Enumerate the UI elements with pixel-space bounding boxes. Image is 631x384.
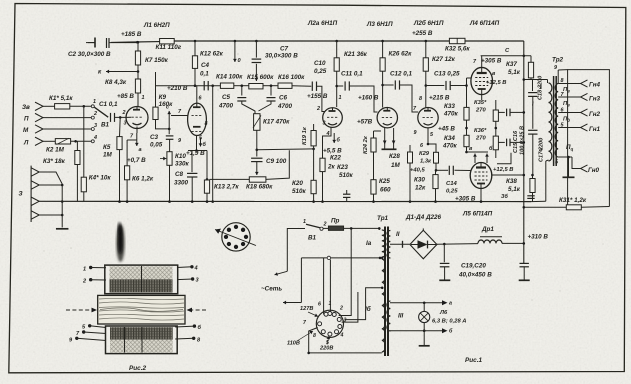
capacitor C18 (532, 80, 534, 92)
svg-text:Л6: Л6 (439, 310, 448, 316)
svg-text:Зв: Зв (22, 104, 30, 111)
svg-text:9: 9 (554, 65, 557, 71)
wire C13 to grid chain (450, 85, 466, 87)
ink smudge (116, 224, 124, 262)
capacitor C17 (528, 129, 537, 131)
Tr1 primary Ia (382, 230, 386, 257)
tap 7 line to Gn3 (558, 96, 578, 98)
resistor R30 (435, 170, 437, 174)
ground bar V4 (384, 144, 386, 149)
svg-text:4700: 4700 (277, 103, 293, 110)
wire input 1 to R1 (43, 105, 55, 107)
fuse Pr (323, 227, 328, 229)
bus junction dots (194, 40, 197, 43)
svg-text:К23: К23 (337, 164, 348, 171)
grid chain vertical (466, 78, 468, 107)
capacitor C11 (337, 85, 344, 87)
Tr1 primary taps (378, 228, 380, 230)
svg-text:Л: Л (23, 139, 29, 146)
small cap on bus right (527, 195, 534, 197)
transformer Tr1 core (384, 227, 386, 357)
V6 cathode stub (481, 95, 483, 100)
svg-text:Тр2: Тр2 (552, 57, 564, 64)
svg-text:1М: 1М (103, 152, 113, 159)
wire input 2 (43, 117, 91, 119)
wire II to bridge (390, 243, 410, 245)
diode bridge D1-D4 (410, 230, 437, 258)
tube V6 output top (471, 67, 493, 94)
svg-text:2: 2 (339, 306, 343, 312)
svg-text:+255 В: +255 В (412, 30, 433, 37)
resistor R36 (493, 136, 498, 150)
svg-text:К27 12к: К27 12к (432, 56, 456, 63)
socket key line (215, 230, 256, 246)
resistor R20 (313, 149, 315, 180)
wire R2 to contact 4 (71, 140, 92, 142)
resistor R13 (206, 151, 208, 181)
svg-text:К19 1к: К19 1к (302, 126, 308, 145)
svg-text:К18 680к: К18 680к (246, 184, 273, 191)
capacitor on bus near R23 (343, 193, 350, 195)
svg-text:8: 8 (313, 333, 316, 339)
cathode arrow a (136, 133, 138, 146)
resistor R15 potentiometer (249, 84, 263, 89)
resistor R33 (464, 107, 469, 120)
svg-text:К38: К38 (506, 178, 517, 185)
selector pins (324, 312, 328, 316)
jack Gn3 (581, 93, 588, 100)
selector wire b (329, 260, 331, 312)
input jack group2 d (31, 211, 39, 219)
svg-text:К10: К10 (175, 153, 186, 160)
V2a cathode (196, 136, 198, 151)
svg-text:С9 100: С9 100 (266, 158, 287, 165)
resistor R11 on bus (160, 39, 175, 44)
svg-text:+215 В: +215 В (429, 95, 450, 102)
filament bottom wire (390, 330, 445, 332)
svg-text:660: 660 (380, 187, 391, 194)
svg-text:Л1 6Н2П: Л1 6Н2П (143, 22, 170, 29)
svg-text:С4: С4 (201, 62, 210, 69)
V7 anode wire (545, 161, 547, 201)
svg-text:К8 4,3к: К8 4,3к (105, 79, 127, 86)
wire R8 to V1 anode (137, 93, 139, 107)
svg-text:Тр1: Тр1 (377, 215, 389, 222)
svg-text:4: 4 (340, 333, 344, 339)
svg-text:К35*: К35* (474, 100, 487, 106)
bridge top wire (422, 228, 424, 230)
chain junction 2 (263, 85, 278, 87)
wire to Gn0 (572, 157, 579, 169)
svg-text:С6: С6 (279, 95, 288, 102)
tube socket bottom view (222, 223, 250, 251)
svg-text:К2 1М: К2 1М (46, 147, 65, 154)
svg-text:4: 4 (538, 148, 542, 154)
Tr1 secondary II (387, 231, 390, 259)
Tr1 bottom tap (309, 328, 382, 353)
resistor R3 (76, 141, 78, 150)
wire R29 to C14 line (435, 163, 437, 170)
svg-text:1: 1 (142, 95, 145, 101)
mains arrow top (287, 229, 305, 272)
svg-text:З: З (19, 191, 23, 198)
svg-text:6: 6 (318, 302, 321, 308)
V5 cathode network (428, 128, 436, 152)
jack Gn1 (581, 124, 588, 131)
svg-text:+12,5 В: +12,5 В (493, 167, 513, 173)
resistor R25 (371, 180, 376, 194)
svg-text:К7 150к: К7 150к (145, 57, 169, 64)
selector wire c (339, 228, 352, 315)
svg-text:Рис.1: Рис.1 (465, 357, 482, 364)
V7 grid feeds (467, 151, 489, 153)
svg-text:1,3к: 1,3к (420, 159, 432, 165)
svg-text:1: 1 (83, 267, 86, 273)
head top terminals right (190, 265, 193, 268)
resistor R35 (495, 100, 497, 110)
svg-text:220В: 220В (319, 346, 333, 352)
svg-text:Л3 6Н1П: Л3 6Н1П (366, 21, 393, 28)
tube V2a (188, 103, 207, 135)
svg-text:510к: 510к (339, 172, 354, 179)
wire C3 to R10 (169, 139, 171, 151)
head core wood (98, 295, 185, 324)
group2 vertical to ground (61, 185, 63, 227)
svg-text:+5,5 В: +5,5 В (323, 148, 342, 155)
svg-text:4: 4 (93, 135, 97, 141)
arrow to k (106, 71, 137, 73)
svg-text:Гн1: Гн1 (589, 126, 601, 133)
bridge diode symbol (411, 244, 418, 246)
resistor R29 (434, 152, 439, 163)
svg-text:Л2а 6Н1П: Л2а 6Н1П (307, 20, 338, 27)
svg-text:Пр: Пр (331, 218, 340, 225)
svg-text:К30: К30 (414, 177, 425, 184)
input group 2 bracket (30, 166, 32, 222)
arrow node c (168, 111, 170, 129)
svg-text:0,05: 0,05 (150, 142, 163, 149)
svg-text:Пв: Пв (563, 101, 570, 108)
svg-text:Д1-Д4 Д226: Д1-Д4 Д226 (405, 214, 441, 221)
mains lower branch (301, 257, 380, 259)
svg-text:К31* 1,2к: К31* 1,2к (559, 197, 587, 204)
svg-text:6,3 В; 0,28 А: 6,3 В; 0,28 А (432, 319, 466, 325)
tone box left wire (212, 86, 214, 202)
head bottom block (106, 326, 178, 354)
svg-text:а: а (139, 147, 142, 153)
svg-text:К37: К37 (506, 61, 517, 68)
svg-text:Л2б 6Н1П: Л2б 6Н1П (413, 19, 444, 27)
capacitor C15 (498, 111, 504, 113)
capacitor C4 (203, 81, 205, 90)
svg-text:+12,5 В: +12,5 В (486, 80, 506, 86)
head top terminals left (89, 266, 92, 269)
svg-text:330к: 330к (175, 161, 190, 168)
svg-text:К12 62к: К12 62к (200, 51, 224, 58)
svg-text:К5: К5 (103, 144, 111, 151)
wire R21 to V3 anode (336, 71, 338, 107)
capacitor C10 (311, 82, 313, 91)
cathode node line (188, 150, 207, 152)
svg-text:С13 0,25: С13 0,25 (434, 71, 460, 78)
svg-text:+57В: +57В (357, 119, 373, 126)
C7 lower stem arrow (255, 64, 257, 81)
svg-text:+40,5: +40,5 (410, 168, 425, 174)
input jack group2 b (31, 181, 39, 189)
resistor R34 (464, 135, 469, 146)
svg-text:К15 600к: К15 600к (247, 74, 274, 81)
wire R27 to V5 anode (425, 71, 427, 107)
choke Dr1 (478, 240, 502, 243)
svg-text:К32 5,6к: К32 5,6к (445, 46, 470, 53)
svg-text:+45 В: +45 В (438, 126, 455, 133)
Tr2 core (553, 76, 555, 166)
fuse junction (350, 227, 353, 230)
ground of secondary (568, 157, 570, 177)
down arrow node 0 (234, 41, 236, 62)
svg-text:П: П (24, 116, 29, 123)
jack Gn4 (581, 80, 588, 87)
cathode heater arrow b (200, 138, 202, 147)
svg-text:С19,С20: С19,С20 (461, 263, 486, 270)
svg-text:Рис.2: Рис.2 (129, 365, 146, 372)
capacitor C14 (436, 169, 448, 171)
tap 8 line to Gn4 (558, 83, 578, 85)
svg-text:2: 2 (122, 110, 126, 116)
wire C11 to V4 grid (349, 86, 377, 112)
svg-text:С5: С5 (222, 94, 231, 101)
wire R1 to switch contact 1 (70, 105, 91, 107)
wire input 3 (43, 128, 91, 130)
switch B1 mains (306, 224, 320, 228)
Tr1 primary Ib (382, 259, 386, 352)
wire R35-R36 (495, 121, 497, 136)
choke to +310 (502, 242, 524, 244)
svg-text:Пд: Пд (563, 117, 570, 124)
svg-text:+305 В: +305 В (481, 58, 502, 65)
svg-text:К6 1,2к: К6 1,2к (132, 176, 154, 183)
ground C20 (519, 279, 530, 281)
resistor R19 (313, 124, 315, 131)
resistor R30b (409, 145, 411, 152)
head top block (105, 265, 178, 294)
svg-text:5,1к: 5,1к (508, 186, 521, 193)
tap 9 wire (557, 70, 559, 84)
resistor R21 (336, 41, 338, 58)
svg-text:В1: В1 (308, 235, 317, 242)
wire R26 to V4 anode (382, 71, 384, 107)
svg-text:8: 8 (561, 78, 564, 84)
capacitor C19 (443, 244, 445, 262)
svg-text:+310 В: +310 В (528, 234, 549, 241)
wire R7-R8 node with k arrow (137, 65, 139, 79)
svg-text:К25: К25 (379, 178, 390, 185)
Tr2 primary winding (549, 83, 552, 161)
svg-text:3300: 3300 (174, 180, 189, 187)
heater arrow (333, 133, 335, 143)
svg-text:2: 2 (323, 222, 327, 228)
lamp L6 (423, 303, 425, 312)
V2a anode wire (196, 86, 198, 103)
svg-text:5: 5 (326, 340, 329, 346)
svg-text:Пв: Пв (563, 87, 570, 94)
svg-text:4700: 4700 (218, 103, 234, 110)
wire R34 down (466, 147, 468, 152)
feedback line (257, 148, 314, 151)
capacitor C20 (520, 262, 529, 264)
svg-text:+85 В: +85 В (117, 93, 134, 100)
svg-text:2: 2 (93, 111, 97, 117)
svg-text:К16 100к: К16 100к (278, 74, 305, 81)
V1 cathode wire (136, 127, 138, 134)
Y junction to R17 (242, 101, 255, 114)
head bottom terminals left (88, 324, 91, 327)
resistor R9 (153, 107, 158, 119)
svg-text:40,0×450 В: 40,0×450 В (458, 272, 492, 279)
input jack М (35, 125, 43, 133)
core arrows (66, 309, 93, 311)
svg-text:К3* 18к: К3* 18к (43, 158, 66, 165)
svg-text:К34: К34 (444, 135, 455, 142)
tube V3 (323, 108, 343, 128)
svg-text:270: 270 (475, 108, 486, 114)
svg-text:Гн2: Гн2 (589, 111, 601, 118)
resistor R5 (119, 117, 122, 136)
capacitor C6 (270, 86, 272, 96)
capacitor C7 electrolytic (255, 41, 257, 58)
tube V5 (418, 108, 438, 128)
jack Gn2 (581, 109, 588, 116)
resistor R37 (530, 56, 532, 63)
V7 cathode line +12.5 (492, 174, 525, 176)
svg-text:+305 В: +305 В (455, 195, 476, 202)
C9 arrow to R18 (256, 162, 258, 175)
svg-text:8: 8 (419, 96, 422, 102)
resistor R16 (278, 83, 292, 88)
svg-text:С14: С14 (446, 181, 458, 187)
resistor R17 trimmer (254, 114, 260, 131)
wire R16 to C10 (292, 85, 311, 88)
svg-text:К17 470к: К17 470к (263, 119, 290, 126)
wire cathode to R6 (127, 139, 137, 141)
svg-text:К4* 10к: К4* 10к (89, 175, 112, 182)
svg-text:К9: К9 (159, 94, 167, 101)
svg-text:К14 100к: К14 100к (216, 74, 243, 81)
capacitor C5 (241, 86, 243, 96)
svg-text:470к: 470к (442, 143, 458, 150)
svg-text:С11 0,1: С11 0,1 (341, 71, 363, 78)
svg-text:М: М (23, 127, 29, 134)
resistor R32 on bus (449, 38, 465, 43)
Tr1 secondary III (387, 301, 390, 331)
wire C1 to V1 grid (115, 116, 132, 118)
input jack group2 c (31, 197, 39, 205)
svg-text:С7: С7 (280, 46, 289, 53)
capacitor C2 electrolytic (88, 42, 95, 44)
svg-text:270: 270 (475, 136, 486, 142)
svg-text:9: 9 (414, 130, 417, 136)
wire group2 d join (39, 214, 62, 216)
svg-text:Гн4: Гн4 (589, 82, 601, 89)
wire R18 left (210, 178, 250, 180)
wire C12 to V5 grid (400, 85, 419, 112)
svg-text:3: 3 (323, 121, 326, 127)
resistor R2 trimmer (55, 139, 70, 144)
svg-text:~Сеть: ~Сеть (261, 286, 282, 293)
resistor R8 (135, 79, 140, 93)
resistor R26 (382, 41, 384, 58)
capacitor C13 (426, 85, 445, 87)
svg-text:Iа: Iа (366, 240, 372, 247)
svg-text:1: 1 (329, 301, 332, 307)
svg-text:Зб: Зб (501, 193, 508, 200)
lamp ground (423, 331, 425, 345)
resistor R18 horizontal (249, 177, 266, 182)
capacitor C12 (383, 84, 394, 86)
V7 cathode wire (480, 188, 482, 201)
svg-text:110В: 110В (287, 341, 300, 347)
V2a grid wire (171, 115, 188, 117)
svg-text:III: III (398, 313, 403, 320)
wire R18 right up (266, 150, 289, 179)
svg-text:Гн3: Гн3 (589, 96, 601, 103)
svg-text:а: а (449, 301, 452, 307)
svg-text:0,25: 0,25 (446, 189, 458, 195)
switch B1 wiper (94, 107, 108, 117)
wire primary top (524, 79, 548, 81)
svg-text:100,0×25 В: 100,0×25 В (520, 126, 526, 155)
selector wire d (342, 292, 358, 322)
filament top wire (390, 302, 445, 304)
svg-text:Л4 6П14П: Л4 6П14П (469, 20, 500, 27)
svg-text:+160 В: +160 В (358, 95, 379, 102)
svg-text:К11 110г: К11 110г (156, 44, 182, 51)
chain junction 1 (234, 85, 249, 87)
svg-text:5,1к: 5,1к (508, 69, 521, 76)
svg-text:Л5 6П14П: Л5 6П14П (462, 211, 493, 218)
svg-text:К1* 5,1к: К1* 5,1к (49, 95, 73, 102)
svg-text:Др1: Др1 (481, 226, 494, 233)
svg-text:30,0×300 В: 30,0×300 В (265, 53, 298, 60)
svg-text:С10: С10 (314, 60, 326, 67)
resistor R10 trimmer (167, 152, 172, 166)
head bottom terminals right (193, 324, 196, 327)
svg-text:К28: К28 (389, 153, 400, 160)
tap 6 line to Gn2 (558, 112, 578, 114)
svg-text:С12 0,1: С12 0,1 (390, 71, 413, 78)
svg-text:К36*: К36* (474, 128, 487, 134)
resistor R31 (566, 205, 581, 210)
capacitor C8 (191, 151, 193, 173)
resistor R1 (55, 104, 70, 109)
wire bus corner down (523, 41, 525, 263)
wire group2 b join (39, 184, 62, 186)
selector socket circle (316, 310, 343, 337)
tube V7 output bottom (470, 163, 492, 189)
resistor R22 (320, 158, 325, 171)
main ground bus (39, 200, 531, 202)
svg-text:2к: 2к (327, 164, 336, 171)
capacitor C16 (498, 141, 504, 143)
ground symbol input (56, 228, 68, 230)
V7 screen wire (497, 153, 511, 164)
signal chain wire (156, 85, 221, 87)
wire R31 to box (581, 206, 609, 209)
V3 cathode to R22 (323, 127, 332, 158)
input jack Зв (35, 102, 43, 110)
svg-text:С3: С3 (150, 134, 159, 141)
svg-text:+155 В: +155 В (307, 93, 328, 100)
